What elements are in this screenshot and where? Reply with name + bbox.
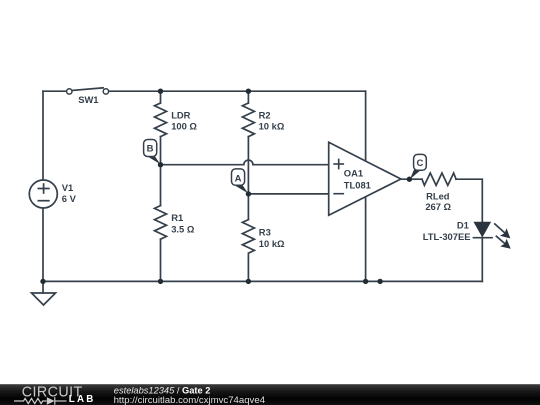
svg-text:6 V: 6 V: [62, 193, 77, 204]
svg-text:3.5 Ω: 3.5 Ω: [171, 224, 195, 235]
svg-text:LTL-307EE: LTL-307EE: [423, 231, 471, 242]
svg-text:LAB: LAB: [69, 394, 96, 405]
svg-text:R1: R1: [171, 212, 183, 223]
svg-text:V1: V1: [62, 182, 73, 193]
svg-text:10 kΩ: 10 kΩ: [259, 121, 285, 132]
svg-text:RLed: RLed: [426, 190, 450, 201]
svg-text:267 Ω: 267 Ω: [425, 201, 451, 212]
svg-text:D1: D1: [457, 220, 469, 231]
svg-text:LDR: LDR: [171, 109, 190, 120]
svg-text:OA1: OA1: [344, 167, 363, 178]
svg-text:B: B: [147, 144, 154, 155]
svg-text:R3: R3: [259, 226, 271, 237]
svg-text:C: C: [416, 158, 423, 169]
svg-text:SW1: SW1: [78, 94, 98, 105]
svg-text:http://circuitlab.com/cxjmvc74: http://circuitlab.com/cxjmvc74aqve4: [114, 395, 266, 405]
svg-text:10 kΩ: 10 kΩ: [259, 238, 285, 249]
svg-text:A: A: [235, 174, 242, 185]
svg-text:R2: R2: [259, 109, 271, 120]
svg-text:100 Ω: 100 Ω: [171, 121, 197, 132]
svg-text:TL081: TL081: [344, 179, 371, 190]
